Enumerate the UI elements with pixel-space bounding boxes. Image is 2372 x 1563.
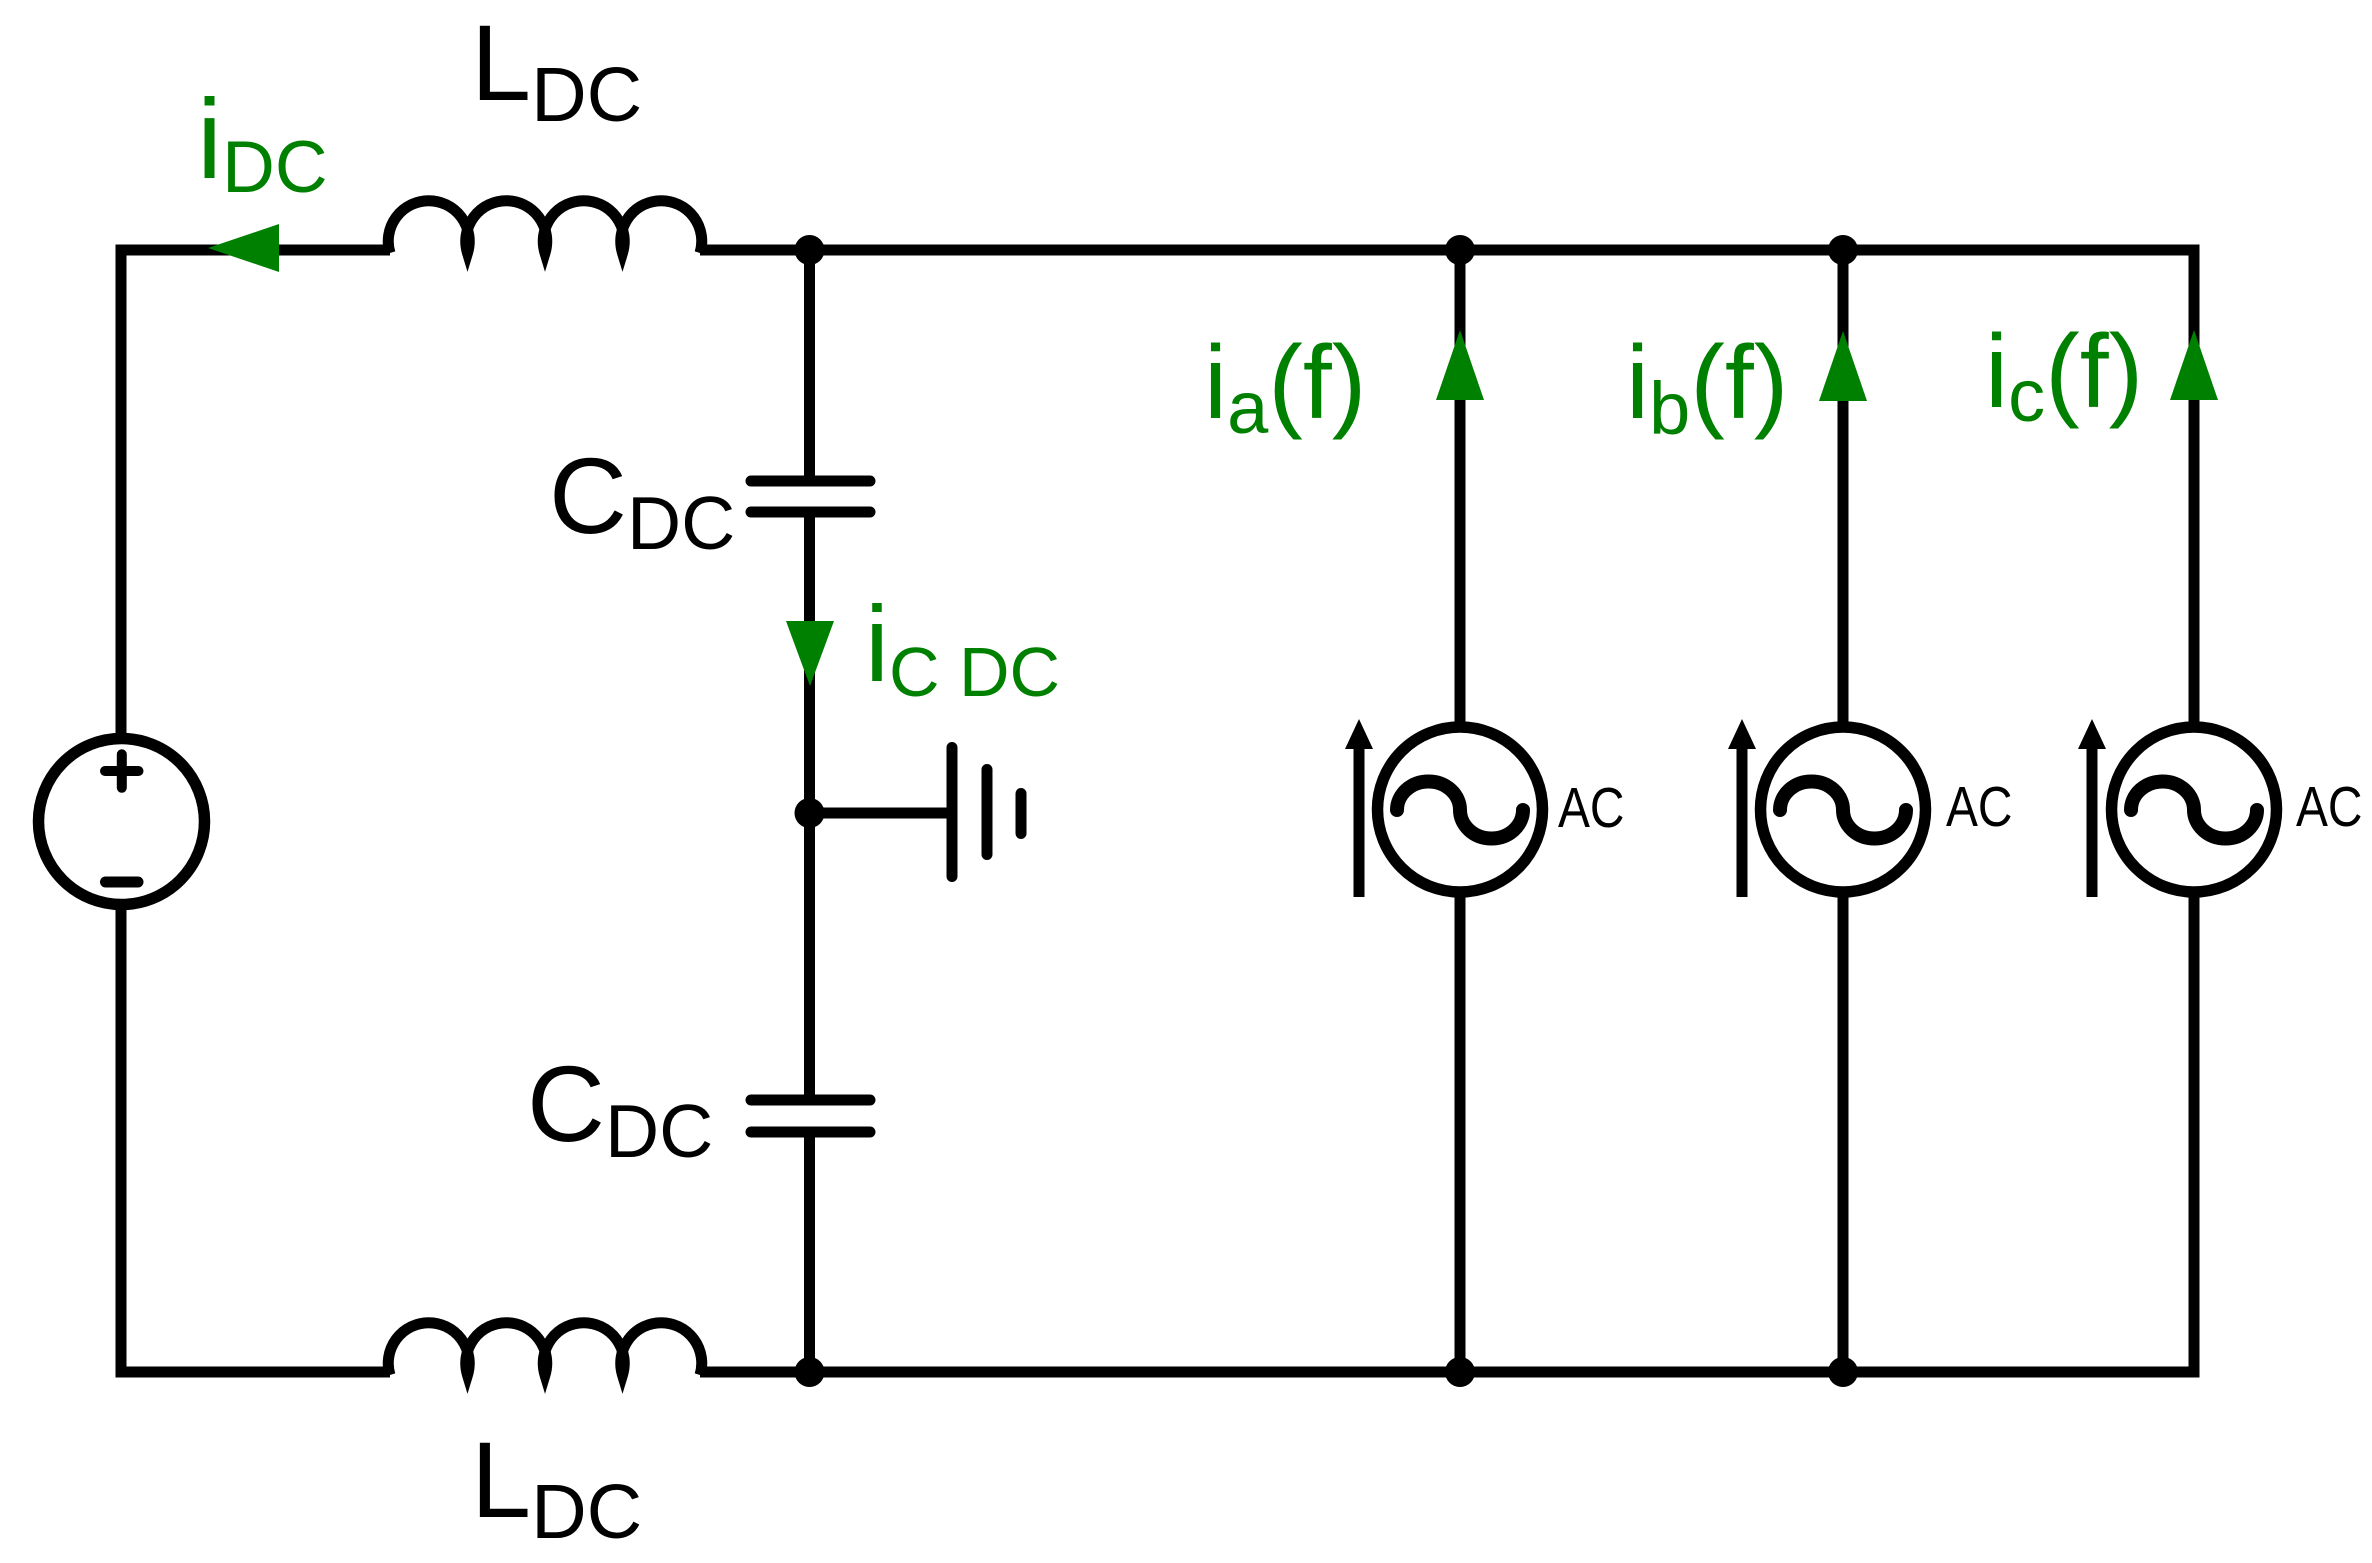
wire: left loop bottom-left section — [121, 908, 390, 1372]
AC source B direction arrow (black, up) — [1737, 742, 1748, 897]
wire: middle branch from bottom capacitor to bottom bus — [804, 1132, 815, 1372]
green arrow i_C_DC (pointing down on middle branch) — [786, 621, 834, 686]
AC current source B circle — [1761, 727, 1926, 892]
label AC (source A) — [1558, 776, 1625, 840]
node dot: top bus at branch B — [1828, 235, 1858, 265]
DC source plus sign — [105, 754, 139, 788]
svg-text:AC: AC — [1946, 775, 2013, 839]
green arrow i_a (up, branch A) — [1436, 330, 1484, 400]
wire: branch B upper — [1838, 250, 1849, 728]
wire: top bus and right edge down to AC source C — [700, 250, 2194, 728]
capacitor C_DC (bottom) plates — [751, 1100, 870, 1132]
AC source C sine wave — [2131, 782, 2257, 839]
label AC (source B) — [1946, 775, 2013, 839]
node: middle branch / ground junction dot — [795, 798, 825, 828]
AC source B sine wave — [1780, 782, 1906, 839]
DC source minus sign — [106, 877, 139, 888]
wire: right edge below AC source C to bottom bus — [700, 892, 2194, 1372]
node dot: top bus at middle branch — [795, 235, 825, 265]
label AC (source C) — [2296, 775, 2363, 839]
wire: branch A upper — [1455, 250, 1466, 728]
wire: middle branch between capacitors — [804, 512, 815, 1100]
AC source C direction arrow (black, up) — [2087, 742, 2098, 897]
wire: ground lead — [810, 808, 950, 819]
inductor L_DC (bottom) — [388, 1323, 702, 1375]
capacitor C_DC (top) plates — [751, 481, 870, 512]
wire: branch A lower — [1455, 892, 1466, 1372]
wire: left loop top-left section — [121, 250, 390, 734]
wire: middle branch from top bus to capacitor C_DC (top) — [804, 250, 815, 478]
AC source A direction arrow (black, up) — [1354, 742, 1365, 897]
inductor L_DC (top) — [388, 201, 701, 253]
node dot: bottom bus at branch B — [1828, 1357, 1858, 1387]
ground symbol (three bars) — [952, 748, 1021, 877]
AC current source C circle — [2112, 727, 2277, 892]
wire: branch B lower — [1838, 892, 1849, 1372]
svg-text:AC: AC — [2296, 775, 2363, 839]
node dot: bottom bus at middle branch — [795, 1357, 825, 1387]
green arrow i_b (up, branch B) — [1819, 331, 1867, 401]
AC source A sine wave — [1397, 782, 1523, 839]
svg-text:AC: AC — [1558, 776, 1625, 840]
green arrow i_c (up, branch C) — [2170, 330, 2218, 400]
green arrow i_DC (pointing left on top bus) — [208, 224, 279, 272]
node dot: top bus at branch A — [1445, 235, 1475, 265]
AC current source A circle — [1378, 727, 1543, 892]
DC voltage source V1 circle — [39, 739, 205, 905]
node dot: bottom bus at branch A — [1445, 1357, 1475, 1387]
